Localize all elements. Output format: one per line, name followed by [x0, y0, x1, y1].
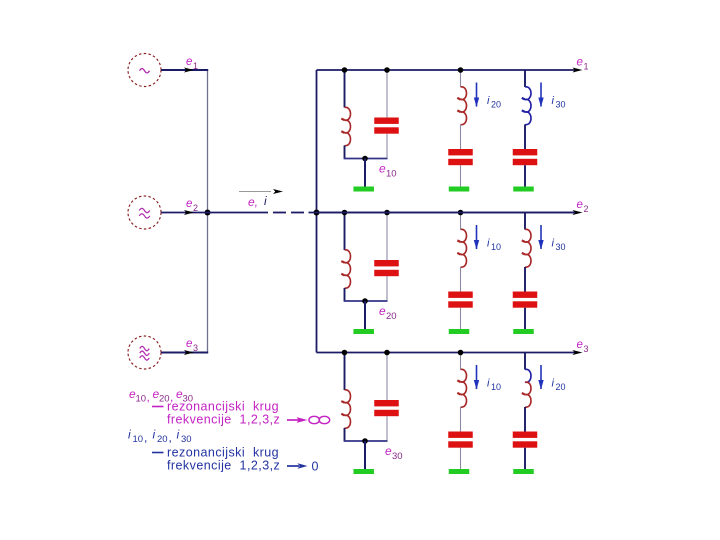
svg-text:10: 10	[491, 382, 501, 392]
svg-text:0: 0	[312, 460, 319, 474]
svg-text:i: i	[128, 428, 131, 442]
svg-text:i: i	[153, 428, 156, 442]
svg-text:e: e	[379, 162, 386, 176]
svg-text:20: 20	[556, 382, 566, 392]
svg-text:e: e	[577, 199, 583, 211]
svg-text:e: e	[577, 57, 583, 69]
svg-text:e: e	[379, 304, 386, 318]
svg-text:3: 3	[193, 343, 198, 353]
svg-text:,: ,	[169, 431, 172, 445]
svg-text:20: 20	[386, 311, 397, 322]
svg-text:frekvencije 1,2,3,z: frekvencije 1,2,3,z	[167, 459, 280, 473]
svg-text:10: 10	[136, 394, 147, 405]
svg-text:i: i	[264, 194, 267, 208]
svg-text:rezonancijski krug: rezonancijski krug	[167, 446, 279, 460]
svg-text:10: 10	[386, 169, 397, 180]
svg-text:e,: e,	[248, 195, 258, 209]
svg-text:frekvencije 1,2,3,z: frekvencije 1,2,3,z	[167, 413, 280, 427]
svg-text:30: 30	[392, 451, 403, 462]
svg-text:1: 1	[193, 61, 198, 71]
svg-text:e: e	[385, 444, 392, 458]
svg-text:rezonancijski krug: rezonancijski krug	[167, 400, 279, 414]
svg-text:e: e	[186, 56, 192, 68]
svg-text:2: 2	[584, 204, 589, 214]
svg-text:,: ,	[147, 390, 150, 404]
svg-text:e: e	[577, 339, 583, 351]
svg-text:,: ,	[144, 431, 147, 445]
svg-text:3: 3	[584, 344, 589, 354]
svg-text:e: e	[186, 338, 192, 350]
svg-text:20: 20	[157, 434, 168, 445]
svg-text:10: 10	[491, 242, 501, 252]
svg-text:10: 10	[133, 434, 144, 445]
svg-text:1: 1	[584, 62, 589, 72]
svg-text:30: 30	[556, 100, 566, 110]
svg-text:2: 2	[193, 203, 198, 213]
svg-text:20: 20	[491, 100, 501, 110]
svg-text:30: 30	[181, 434, 192, 445]
svg-text:i: i	[177, 428, 180, 442]
svg-text:e: e	[186, 198, 192, 210]
svg-text:30: 30	[556, 242, 566, 252]
